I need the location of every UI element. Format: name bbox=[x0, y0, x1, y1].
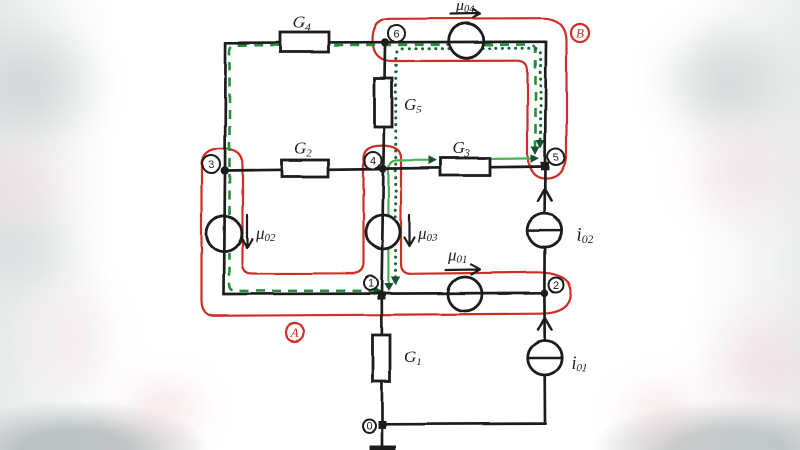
wire right vertical corner-node5 bbox=[545, 42, 546, 166]
arrow u02 bbox=[242, 215, 252, 248]
voltage source u02 bbox=[207, 216, 242, 251]
loop B outline bbox=[373, 18, 567, 178]
wire bottom horizontal node0-corner bbox=[386, 422, 545, 425]
green dashed arrowhead into node5 bbox=[531, 146, 540, 155]
green dotted arrowhead into node1 bbox=[391, 277, 400, 286]
svg-text:G1: G1 bbox=[404, 347, 422, 368]
svg-text:G4: G4 bbox=[293, 13, 311, 34]
svg-text:5: 5 bbox=[553, 152, 559, 164]
blurred video side background right bbox=[690, 0, 800, 450]
wire i01-bottom corner segment bbox=[543, 375, 546, 424]
blurred video side background left bbox=[0, 0, 115, 450]
wire node1-node2 horizontal bbox=[382, 291, 545, 295]
arrow u03 bbox=[405, 215, 415, 246]
green solid path node1-node4-node5 bbox=[387, 250, 389, 285]
green solid arrowhead into node1 bbox=[384, 283, 393, 292]
voltage source u01 bbox=[448, 277, 482, 311]
voltage source u04 bbox=[449, 23, 484, 58]
ground bbox=[370, 429, 397, 448]
green dashed path node1-node3-node6-node5 bbox=[230, 253, 378, 291]
node 5 junction square bbox=[541, 162, 550, 171]
green dashed arrowhead into node1 bbox=[374, 287, 382, 296]
resistor G4 bbox=[280, 33, 329, 53]
arrow u01 bbox=[446, 265, 480, 275]
node 0 junction square bbox=[378, 421, 386, 429]
wire bottom-left horizontal to node1 bbox=[224, 292, 378, 295]
svg-text:G2: G2 bbox=[294, 139, 312, 160]
resistor G5 bbox=[375, 78, 393, 127]
node 3 junction dot bbox=[221, 166, 229, 174]
current source i02 bbox=[528, 214, 562, 248]
green solid mid arrowhead bbox=[428, 156, 437, 165]
node 2 label bbox=[549, 278, 564, 293]
node 4 label bbox=[365, 152, 382, 169]
svg-text:μ02: μ02 bbox=[255, 224, 276, 244]
wire node3-node4 horizontal bbox=[225, 169, 383, 171]
wire top-left vertical (node3 column) bbox=[224, 43, 226, 294]
svg-text:2: 2 bbox=[553, 280, 559, 292]
svg-text:4: 4 bbox=[370, 156, 376, 168]
node 6 junction dot bbox=[381, 38, 389, 46]
svg-text:i01: i01 bbox=[571, 353, 587, 374]
wire node6-node4 vertical bbox=[383, 42, 385, 168]
node 0 label bbox=[363, 420, 376, 433]
wire node2-i01 segment bbox=[543, 293, 546, 341]
node 5 label bbox=[548, 148, 565, 165]
node 4 junction dot bbox=[380, 165, 388, 173]
wire i02-node2 segment bbox=[543, 248, 546, 293]
svg-text:6: 6 bbox=[393, 29, 399, 41]
wire node4-node5 horizontal bbox=[383, 167, 545, 169]
wire top horizontal node6-right corner bbox=[385, 40, 546, 43]
resistor G3 bbox=[440, 158, 490, 176]
svg-text:B: B bbox=[576, 26, 584, 41]
loop A outline bbox=[202, 146, 571, 316]
resistor G1 bbox=[373, 335, 391, 382]
svg-text:G5: G5 bbox=[404, 95, 422, 116]
svg-text:1: 1 bbox=[367, 278, 373, 290]
wire node4-node1 vertical bbox=[382, 169, 384, 294]
node 2 junction dot bbox=[541, 289, 549, 297]
wire node5-i02 top segment bbox=[543, 166, 546, 214]
loop A label bbox=[286, 323, 304, 341]
svg-text:i02: i02 bbox=[576, 225, 593, 246]
svg-text:3: 3 bbox=[208, 159, 214, 171]
svg-text:0: 0 bbox=[366, 421, 372, 433]
voltage source u03 bbox=[366, 215, 400, 249]
node 1 label bbox=[364, 276, 378, 290]
wire node1-node0 vertical bbox=[380, 294, 383, 425]
loop B label bbox=[571, 24, 589, 42]
svg-text:μ01: μ01 bbox=[447, 246, 468, 266]
green dotted arrowhead into node5 bbox=[536, 140, 545, 149]
svg-text:A: A bbox=[290, 325, 299, 340]
current arrow on node5 branch bbox=[538, 189, 552, 201]
green solid arrowhead into node5 bbox=[531, 154, 540, 163]
green dotted path node1-node4-node6-node5 bbox=[394, 247, 397, 277]
svg-text:μ03: μ03 bbox=[417, 224, 438, 244]
arrow u04 bbox=[451, 10, 480, 18]
current arrow on node2 branch bbox=[538, 318, 552, 330]
wire top horizontal node3col-node6 bbox=[226, 41, 385, 44]
resistor G2 bbox=[282, 160, 329, 177]
svg-text:G3: G3 bbox=[452, 139, 470, 160]
current source i01 bbox=[528, 341, 562, 375]
node 6 label bbox=[388, 25, 405, 42]
node 3 label bbox=[202, 155, 220, 173]
node 1 junction square bbox=[377, 292, 385, 300]
